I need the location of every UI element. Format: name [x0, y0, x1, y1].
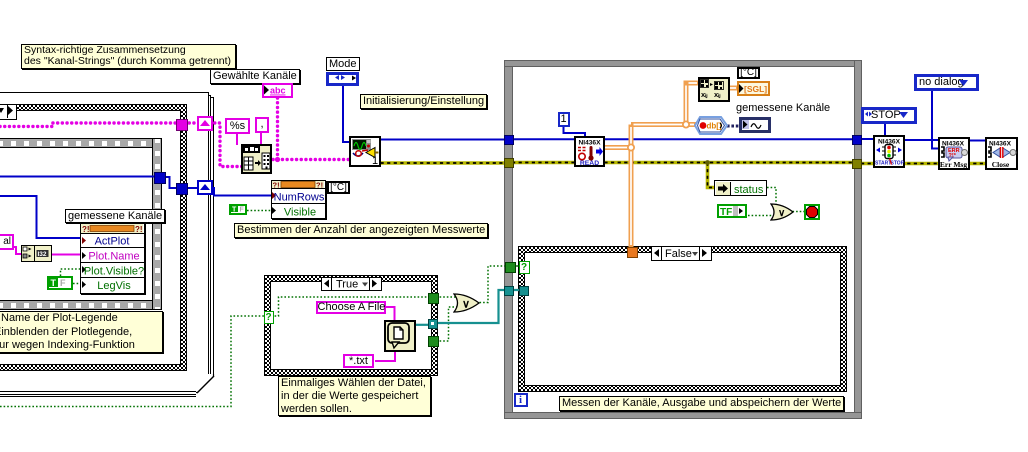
svg-text:STOP: STOP: [891, 161, 905, 167]
svg-text:ActPlot: ActPlot: [95, 236, 130, 248]
svg-text:TF: TF: [720, 207, 732, 218]
svg-text:∨: ∨: [462, 299, 470, 311]
svg-text:F: F: [240, 207, 245, 214]
svg-text:?!: ?!: [82, 225, 90, 234]
svg-text:Visible: Visible: [284, 207, 316, 219]
svg-text:xᵢⱼ: xᵢⱼ: [701, 90, 708, 99]
svg-text:False: False: [665, 248, 692, 260]
svg-text:xᵢⱼ: xᵢⱼ: [714, 90, 721, 99]
svg-text:NumRows: NumRows: [274, 192, 325, 204]
svg-text:LegVis: LegVis: [97, 280, 131, 292]
svg-text:[SGL]: [SGL]: [744, 84, 767, 94]
svg-text:?!: ?!: [135, 225, 143, 234]
svg-text:Err Msg: Err Msg: [940, 160, 967, 168]
svg-text:Plot.Name: Plot.Name: [88, 251, 139, 263]
svg-text:True: True: [336, 278, 358, 290]
svg-text:Plot.Visible?: Plot.Visible?: [84, 266, 144, 278]
svg-text:NI436X: NI436X: [579, 139, 602, 146]
svg-text:NI436X: NI436X: [989, 141, 1012, 148]
svg-text:NI436X: NI436X: [942, 141, 965, 148]
svg-text:READ: READ: [580, 160, 599, 166]
svg-text:T: T: [232, 207, 237, 214]
svg-text:1: 1: [372, 155, 378, 166]
svg-text:status: status: [734, 184, 764, 196]
svg-text:db[]: db[]: [707, 122, 722, 131]
svg-text:F: F: [60, 278, 66, 288]
svg-text:START: START: [875, 161, 891, 167]
svg-text:I32: I32: [38, 251, 47, 258]
svg-text:∨: ∨: [778, 208, 785, 219]
svg-text:T: T: [51, 278, 57, 288]
svg-text:abc: abc: [270, 86, 286, 96]
svg-text:Close: Close: [992, 160, 1010, 168]
svg-text:?!*: ?!*: [949, 153, 957, 159]
